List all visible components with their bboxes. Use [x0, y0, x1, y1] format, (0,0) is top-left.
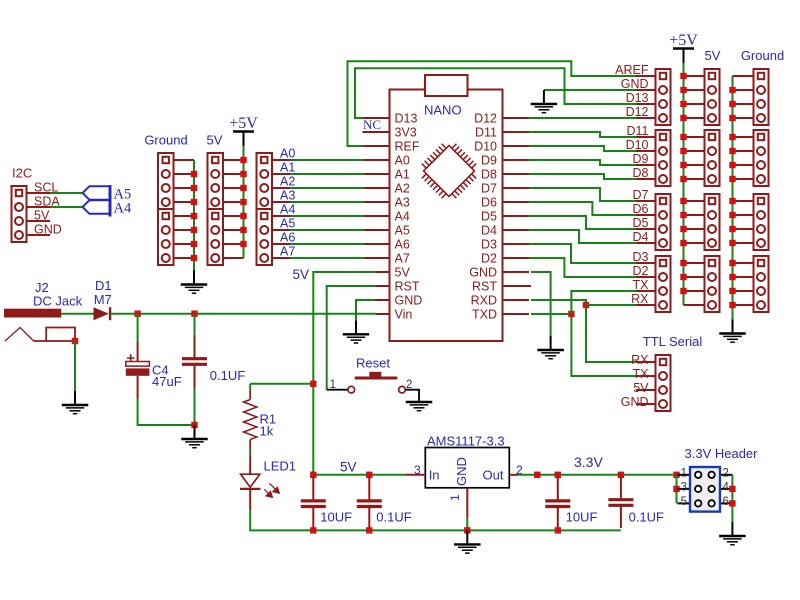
svg-text:In: In — [429, 468, 440, 483]
junction +5V rail — [680, 101, 686, 107]
Ground column pin lead — [733, 290, 754, 292]
junction +5V rail — [680, 226, 686, 232]
svg-text:GND: GND — [621, 77, 649, 91]
ground symbol (input caps) — [181, 425, 208, 448]
svg-text:GND: GND — [34, 223, 62, 237]
wire Vin to C4 — [137, 314, 139, 342]
nano pin lead D3 (right) — [503, 243, 530, 245]
junction 5V rail at 10UF — [310, 472, 316, 478]
header pin lead GND — [636, 89, 656, 91]
junction 3.3V rail at 10UF — [555, 472, 561, 478]
svg-text:GND: GND — [469, 266, 497, 280]
wire +5V rail (left) — [243, 146, 245, 258]
header pin lead D10 — [636, 150, 656, 152]
5V column pin lead — [684, 178, 705, 180]
header pin lead D7 — [636, 200, 656, 202]
wire net RX branch to pin header — [586, 304, 636, 306]
Ground header pin lead — [174, 215, 195, 217]
svg-text:REF: REF — [395, 140, 420, 154]
voltage regulator U2 AMS1117-3.3 body — [425, 448, 509, 488]
header pin lead D8 — [636, 178, 656, 180]
svg-text:5V: 5V — [395, 266, 411, 280]
wire net TX branch to pin header — [571, 291, 636, 314]
junction ground rail at 10UF — [310, 527, 316, 533]
svg-text:A1: A1 — [280, 161, 295, 175]
nano pin lead D12 (right) — [503, 117, 530, 119]
NANO chip icon (diamond with pins) — [414, 136, 483, 205]
wire net Vin — [111, 313, 376, 315]
A1 header pin lead — [272, 173, 291, 175]
5V header pin lead — [223, 243, 244, 245]
I2C pin lead SCL — [27, 192, 51, 194]
svg-text:D11: D11 — [475, 126, 497, 140]
svg-text:Vin: Vin — [395, 308, 413, 322]
junction ground rail — [191, 255, 197, 261]
junction J2 ground node — [72, 338, 78, 344]
3.3V header pin lead 3 — [678, 488, 691, 490]
junction +5V rail — [680, 162, 686, 168]
junction ground rail (right) — [729, 148, 735, 154]
svg-text:D13: D13 — [626, 91, 649, 105]
wire net 5V (nano to regulator rail) — [313, 272, 376, 475]
svg-text:4: 4 — [723, 481, 730, 493]
junction +5V rail — [680, 198, 686, 204]
NANO USB connector rectangle — [425, 75, 468, 96]
junction RX net — [583, 302, 589, 308]
nano pin lead D10 (right) — [503, 145, 530, 147]
nano pin lead 3V3 (NC stub) — [363, 131, 390, 133]
junction Vin at 0.1UF — [191, 311, 197, 317]
svg-text:5: 5 — [681, 496, 687, 508]
wire net D12 — [529, 117, 636, 119]
svg-text:A2: A2 — [395, 182, 410, 196]
Ground header pin lead — [174, 257, 195, 259]
junction 5V rail at 0.1UF — [366, 472, 372, 478]
nano pin lead 5V — [376, 271, 390, 273]
svg-text:D5: D5 — [481, 210, 497, 224]
junction ground rail (right) — [729, 274, 735, 280]
svg-text:1: 1 — [330, 379, 336, 391]
junction 3.3V rail at 0.1UF — [618, 472, 624, 478]
nano pin lead D13 — [363, 117, 390, 119]
wire net RST to reset switch — [327, 286, 375, 390]
capacitor 0.1UF (5V side) — [368, 477, 370, 499]
op-amp U1: Arduino NANO module body — [390, 90, 503, 342]
junction 5V rail — [240, 227, 246, 233]
connector 5V 8-pin header (left) — [208, 153, 224, 265]
5V column pin lead — [684, 164, 705, 166]
junction +5V rail — [680, 212, 686, 218]
svg-text:5V: 5V — [292, 267, 309, 282]
wire net D6 — [529, 202, 636, 215]
Ground header pin lead — [174, 173, 195, 175]
header pin lead D6 — [636, 214, 656, 216]
ground symbol (AREF group) — [531, 90, 558, 113]
svg-text:RXD: RXD — [471, 294, 497, 308]
connector Ground header group 1 (right) — [754, 69, 769, 125]
header pin lead RX — [636, 304, 656, 306]
connector 5V header group 4 (right) — [705, 256, 720, 312]
svg-text:D11: D11 — [626, 124, 648, 138]
svg-text:GND: GND — [454, 457, 469, 486]
svg-text:D7: D7 — [633, 188, 649, 202]
Ground column pin lead — [733, 242, 754, 244]
junction 3.3V at pin 3 — [673, 486, 679, 492]
svg-text:TX: TX — [633, 278, 650, 292]
svg-text:D6: D6 — [633, 202, 649, 216]
nano pin lead A0 — [364, 159, 390, 161]
wire ground rail (right) — [732, 76, 734, 320]
capacitor 0.1UF (3.3V side) — [620, 477, 622, 498]
svg-text:D4: D4 — [633, 230, 649, 244]
svg-text:5V: 5V — [705, 48, 721, 63]
wire net D11 — [529, 132, 636, 137]
Ground column pin lead — [733, 103, 754, 105]
C4 bottom lead — [137, 376, 139, 399]
nano pin lead D2 (right) — [503, 257, 530, 259]
junction +5V rail — [680, 115, 686, 121]
Ground column pin lead — [733, 164, 754, 166]
svg-text:5V: 5V — [340, 460, 357, 475]
header pin lead D3 — [636, 262, 656, 264]
svg-text:Ground: Ground — [741, 48, 784, 63]
svg-text:2: 2 — [723, 467, 729, 479]
svg-text:3.3V: 3.3V — [574, 454, 603, 470]
3.3V header pin lead 4 — [720, 488, 732, 490]
connector Ground header group 3 (right) — [754, 194, 769, 250]
svg-text:1: 1 — [448, 494, 462, 501]
nano pin lead RST (stub, right) — [503, 285, 532, 287]
svg-text:A6: A6 — [280, 231, 295, 245]
connector J2 DC jack barrel — [4, 309, 61, 318]
junction +5V rail — [680, 274, 686, 280]
Ground header pin lead — [174, 159, 195, 161]
junction +5V rail — [680, 176, 686, 182]
connector Ground header group 4 (right) — [754, 256, 769, 312]
junction ground rail — [191, 241, 197, 247]
junction +5V rail — [680, 73, 686, 79]
wire net A5 — [291, 229, 365, 231]
connector 5V header group 3 (right) — [705, 194, 720, 250]
Ground header pin lead — [174, 201, 195, 203]
svg-text:D12: D12 — [626, 105, 649, 119]
wire 0.1UF to ground rail — [194, 388, 196, 425]
svg-text:TXD: TXD — [472, 308, 497, 322]
nano pin lead A6 — [364, 243, 390, 245]
3.3V header pin lead 5 — [678, 502, 691, 504]
svg-text:A0: A0 — [280, 147, 295, 161]
R1 bottom lead — [249, 440, 251, 449]
Ground column pin lead — [733, 75, 754, 77]
wire net A3 — [291, 201, 365, 203]
svg-text:DC Jack: DC Jack — [33, 294, 83, 309]
junction ground rail (right) — [729, 302, 735, 308]
connector breakout header group 4 (signal column) — [656, 256, 671, 312]
C4 top lead — [137, 342, 139, 362]
junction 5V rail — [240, 185, 246, 191]
wire R1 top — [249, 384, 251, 391]
header pin lead D5 — [636, 228, 656, 230]
junction ground rail (right) — [729, 176, 735, 182]
nano pin lead D5 (right) — [503, 215, 530, 217]
LED1 anode lead — [249, 456, 251, 475]
svg-text:D10: D10 — [626, 138, 649, 152]
junction ground rail — [191, 171, 197, 177]
I2C pin lead GND — [27, 234, 51, 236]
Ground column pin lead — [733, 304, 754, 306]
A7 header pin lead — [272, 257, 291, 259]
junction ground rail — [191, 213, 197, 219]
svg-text:LED1: LED1 — [264, 459, 297, 474]
I2C pin lead 5V — [27, 220, 51, 222]
header pin lead D2 — [636, 276, 656, 278]
wire net D13 (around top) — [355, 68, 636, 118]
wire 5V to R1 — [250, 383, 313, 385]
connector Ground header group 2 (right) — [754, 130, 769, 186]
wire U2 GND to ground rail — [466, 518, 468, 531]
junction ground rail at 0.1UF — [366, 527, 372, 533]
A6 header pin lead — [272, 243, 291, 245]
diode D1 (M7) — [94, 307, 109, 320]
junction +5V rail — [680, 148, 686, 154]
junction ground rail at 10UF (3.3V) — [555, 527, 561, 533]
connector breakout header group 1 (signal column) — [656, 69, 671, 125]
header pin lead TX — [636, 290, 656, 292]
svg-text:47uF: 47uF — [152, 374, 182, 389]
junction 5V rail at R1 feed — [310, 381, 316, 387]
wire J2 to diode D1 — [61, 313, 93, 315]
svg-text:A4: A4 — [395, 210, 410, 224]
5V header pin lead — [223, 257, 244, 259]
Ground column pin lead — [733, 214, 754, 216]
5V column pin lead — [684, 200, 705, 202]
svg-text:1: 1 — [681, 467, 687, 479]
svg-text:A6: A6 — [395, 238, 410, 252]
wire net GND (AREF group) — [544, 89, 636, 91]
nano pin lead D4 (right) — [503, 229, 530, 231]
3.3V header pin lead 1 — [678, 474, 691, 476]
nano pin lead GND2 (right) — [503, 271, 530, 273]
5V column pin lead — [684, 214, 705, 216]
svg-text:A4: A4 — [114, 201, 132, 217]
svg-text:A4: A4 — [280, 203, 295, 217]
5V column pin lead — [684, 103, 705, 105]
5V column pin lead — [684, 228, 705, 230]
Ground column pin lead — [733, 228, 754, 230]
junction 5V rail — [240, 241, 246, 247]
nano pin lead GND — [375, 299, 390, 301]
svg-text:D2: D2 — [481, 252, 497, 266]
ground symbol (nano right GND) — [537, 336, 564, 359]
junction ground rail (right) — [729, 162, 735, 168]
wire net AREF (around top) — [348, 61, 637, 146]
junction +5V rail — [680, 288, 686, 294]
junction ground rail at U2 — [464, 527, 470, 533]
junction ground rail (right) — [729, 87, 735, 93]
junction ground rail (right) — [729, 240, 735, 246]
svg-text:0.1UF: 0.1UF — [210, 368, 245, 383]
ground symbol (left header rail) — [181, 271, 208, 294]
wire ground rail (regulator section) — [250, 510, 621, 530]
junction +5V rail — [680, 134, 686, 140]
nano pin lead A3 — [364, 201, 390, 203]
3.3V header pin lead 6 — [720, 502, 732, 504]
connector breakout header group 2 (signal column) — [656, 130, 671, 186]
junction input ground rail — [191, 422, 197, 428]
svg-text:A1: A1 — [395, 168, 410, 182]
wire 5V rail to regulator In — [313, 474, 406, 476]
R1 top lead — [249, 391, 251, 400]
5V column pin lead — [684, 136, 705, 138]
5V header pin lead — [223, 187, 244, 189]
J2 contact line — [34, 340, 75, 342]
I2C pin lead SDA — [27, 206, 51, 208]
svg-text:NANO: NANO — [424, 103, 462, 118]
nano pin lead Vin — [376, 313, 390, 315]
A0 header pin lead — [272, 159, 291, 161]
Ground column pin lead — [733, 117, 754, 119]
wire net D5 — [529, 216, 636, 229]
junction ground rail (right) — [729, 115, 735, 121]
junction ground rail (right) — [729, 260, 735, 266]
Ground column pin lead — [733, 150, 754, 152]
junction ground rail — [191, 185, 197, 191]
nano pin lead D7 (right) — [503, 187, 530, 189]
nano pin lead A2 — [364, 187, 390, 189]
svg-text:3: 3 — [681, 481, 687, 493]
S1 pin 1 lead — [327, 389, 348, 391]
junction 5V rail — [240, 171, 246, 177]
wire Vin to 0.1UF — [194, 314, 196, 335]
TTL pin lead RX — [636, 361, 656, 363]
wire net A4 — [291, 215, 365, 217]
svg-text:A2: A2 — [280, 175, 295, 189]
LED1 cathode bar — [240, 488, 260, 490]
svg-text:3V3: 3V3 — [395, 126, 417, 140]
C4 plus sign — [127, 354, 135, 362]
wire net D7 — [529, 188, 636, 201]
C4 positive plate — [126, 362, 150, 367]
header pin lead D4 — [636, 242, 656, 244]
Ground header pin lead — [174, 229, 195, 231]
junction ground rail (right) — [729, 101, 735, 107]
wire SCL net — [50, 192, 83, 194]
J2 sleeve contact — [46, 328, 75, 342]
junction +5V rail — [680, 260, 686, 266]
wire net A6 — [291, 243, 365, 245]
junction 3.3V rail at Out — [534, 472, 540, 478]
svg-text:+5V: +5V — [229, 115, 258, 132]
wire R1 to LED1 — [249, 449, 251, 456]
svg-text:Out: Out — [483, 468, 504, 483]
nano pin lead D8 (right) — [503, 173, 530, 175]
wire net A0 — [291, 159, 365, 161]
junction ground rail — [191, 227, 197, 233]
junction +5V rail — [680, 240, 686, 246]
J2 spring contact — [5, 328, 34, 342]
svg-text:TTL Serial: TTL Serial — [643, 334, 703, 349]
svg-text:Ground: Ground — [144, 133, 187, 148]
capacitor 0.1UF (input) — [194, 335, 196, 357]
junction ground rail (right) — [729, 212, 735, 218]
wire net RX (RXD to headers) — [531, 300, 636, 362]
5V column pin lead — [684, 150, 705, 152]
wire net GND (nano left) — [356, 300, 375, 320]
svg-text:3.3V Header: 3.3V Header — [685, 446, 759, 461]
svg-text:RX: RX — [631, 292, 649, 306]
junction 5V rail — [240, 157, 246, 163]
wire C4 to ground rail — [138, 399, 195, 426]
ground symbol (nano left GND) — [343, 320, 370, 343]
nano pin lead D6 (right) — [503, 201, 530, 203]
svg-text:+5V: +5V — [669, 32, 698, 49]
svg-text:AMS1117-3.3: AMS1117-3.3 — [427, 434, 505, 449]
svg-text:D1: D1 — [95, 278, 112, 293]
svg-text:10UF: 10UF — [566, 510, 598, 525]
svg-text:D2: D2 — [633, 264, 649, 278]
nano pin lead RST — [375, 285, 390, 287]
nano pin lead A4 — [364, 215, 390, 217]
svg-text:RST: RST — [395, 280, 420, 294]
svg-text:RX: RX — [631, 353, 649, 367]
connector 5V header group 2 (right) — [705, 130, 720, 186]
connector Ground 8-pin header (left) — [158, 153, 174, 265]
junction header ground at pin 6 — [729, 500, 735, 506]
svg-text:A3: A3 — [395, 196, 410, 210]
svg-text:A0: A0 — [395, 154, 410, 168]
5V column pin lead — [684, 75, 705, 77]
svg-text:D4: D4 — [481, 224, 497, 238]
nano pin lead D9 (right) — [503, 159, 530, 161]
U2 pin lead GND — [466, 488, 468, 518]
svg-text:10UF: 10UF — [320, 510, 352, 525]
5V header pin lead — [223, 201, 244, 203]
bus segment — [109, 185, 112, 217]
5V column pin lead — [684, 242, 705, 244]
nano pin lead RXD (right) — [503, 299, 530, 301]
Ground column pin lead — [733, 136, 754, 138]
5V column pin lead — [684, 290, 705, 292]
junction TX net — [568, 311, 574, 317]
junction ground rail (right) — [729, 288, 735, 294]
TTL pin lead 5V — [636, 389, 656, 391]
wire net A7 — [291, 257, 365, 259]
wire net D3 — [529, 244, 636, 263]
wire J2 to ground — [74, 341, 76, 391]
LED1 cathode lead — [249, 489, 251, 510]
A5 header pin lead — [272, 229, 291, 231]
5V header pin lead — [223, 159, 244, 161]
junction ground rail (right) — [729, 198, 735, 204]
Ground column pin lead — [733, 262, 754, 264]
svg-text:A5: A5 — [280, 217, 295, 231]
wire 3.3V header grounds — [731, 475, 733, 522]
junction ground rail — [191, 199, 197, 205]
5V column pin lead — [684, 89, 705, 91]
wire +5V rail (right) — [683, 63, 685, 305]
svg-text:5V: 5V — [207, 133, 223, 148]
C4 negative plate — [126, 368, 150, 375]
svg-text:D6: D6 — [481, 196, 497, 210]
ground symbol (3.3V header) — [719, 522, 746, 545]
header pin lead D12 — [636, 117, 656, 119]
svg-text:RST: RST — [472, 280, 497, 294]
junction ground rail (right) — [729, 134, 735, 140]
wire net A1 — [291, 173, 365, 175]
bus entry A5 — [83, 186, 111, 200]
capacitor 10UF (3.3V side) — [557, 477, 559, 499]
Ground column pin lead — [733, 200, 754, 202]
